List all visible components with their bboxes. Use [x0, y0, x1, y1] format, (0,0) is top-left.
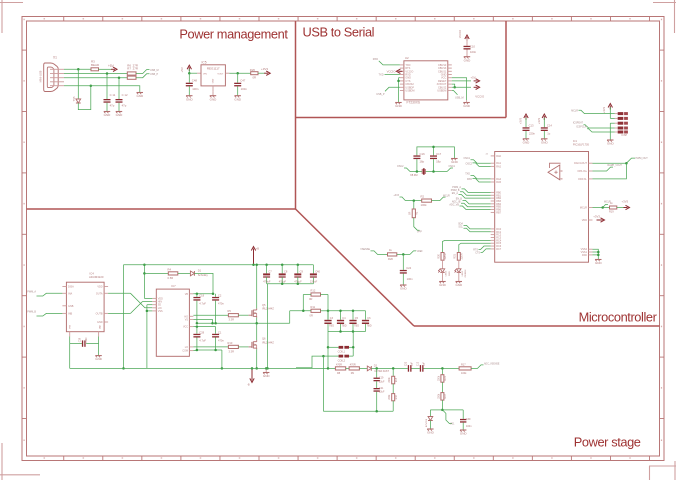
- wire Q6 source to bottom rail: [256, 349, 258, 368]
- svg-text:LO: LO: [185, 346, 188, 349]
- wire R4 to D1: [178, 272, 191, 274]
- wire RA2 crystal net: [465, 163, 490, 167]
- svg-text:C10: C10: [470, 44, 476, 48]
- svg-text:R11: R11: [311, 305, 316, 309]
- wire U2 GND right to ground: [452, 78, 467, 100]
- wire Q5 source to phase: [256, 318, 258, 324]
- svg-text:C1: C1: [218, 331, 222, 335]
- capacitor C16: [413, 152, 425, 172]
- wire R26 to +3V3: [258, 72, 265, 74]
- crystal Q1 8MHz: [410, 168, 447, 177]
- svg-text:220k: 220k: [438, 375, 440, 381]
- wire R9 to D2: [359, 367, 367, 369]
- section divider Microcontroller bottom horizontal: [414, 325, 660, 327]
- section title Power management: [179, 26, 288, 41]
- junction 3V3OUT: [453, 86, 456, 89]
- wire D- from X1: [64, 73, 127, 75]
- svg-text:GND: GND: [234, 97, 242, 101]
- IC1 left pin stubs and labels: [491, 155, 502, 251]
- svg-text:100n: 100n: [241, 87, 248, 91]
- svg-text:C 12: C 12: [122, 93, 128, 97]
- capacitor C40 220uF: [310, 265, 321, 284]
- wire feedback loop to OPA IN-: [593, 163, 627, 179]
- svg-text:R5: R5: [228, 309, 232, 313]
- resistor R19 10k pull-up: [603, 202, 617, 214]
- section divider USB to Serial right vertical: [505, 21, 507, 118]
- junction R15 top: [392, 367, 395, 370]
- resistor R10 3.3R: [228, 341, 239, 354]
- svg-text:220n: 220n: [529, 132, 535, 136]
- resistor R16 vertical: [389, 384, 398, 401]
- svg-text:C16: C16: [420, 152, 426, 156]
- junction lower node: [441, 409, 444, 412]
- svg-text:RXD: RXD: [373, 58, 378, 61]
- junction CTS-GND: [397, 80, 400, 83]
- wire TS5 to shield net: [78, 86, 91, 110]
- svg-text:100n: 100n: [470, 50, 477, 54]
- svg-text:TBD: TBD: [367, 325, 372, 328]
- svg-text:INA: INA: [68, 292, 73, 295]
- svg-text:+5V: +5V: [180, 67, 184, 72]
- svg-text:OPA IN-: OPA IN-: [578, 178, 587, 181]
- svg-text:C40: C40: [315, 270, 320, 274]
- voltage regulator IC5 REG1117: [201, 61, 225, 92]
- svg-text:GND: GND: [263, 374, 271, 378]
- ground GND right of U2: [463, 100, 471, 108]
- supply -B arrow: [247, 368, 254, 386]
- wire top rail to IC4 region vertical: [123, 265, 125, 369]
- svg-text:PAD: PAD: [582, 254, 587, 257]
- IC1 RA0 pin number: [486, 154, 489, 156]
- wire R6 to net label: [136, 69, 159, 74]
- svg-text:3.3R: 3.3R: [229, 349, 235, 353]
- wire PWM_A into IC4: [27, 290, 62, 296]
- capacitor C21 22uF: [374, 387, 385, 411]
- svg-text:COIL2: COIL2: [338, 358, 346, 362]
- svg-text:COM: COM: [182, 350, 188, 353]
- svg-text:GND: GND: [97, 321, 103, 324]
- ground GND below C13: [523, 139, 531, 145]
- svg-text:R17: R17: [461, 363, 466, 366]
- svg-text:RA5: RA5: [496, 181, 501, 184]
- junction VBUS: [77, 68, 80, 71]
- svg-text:+3V3: +3V3: [622, 199, 629, 203]
- svg-text:VB: VB: [185, 293, 189, 296]
- wire R2 to MCLR label: [432, 194, 451, 200]
- svg-text:3.3R: 3.3R: [229, 318, 235, 322]
- ground GND below IC4: [95, 344, 103, 362]
- svg-text:4.7uF: 4.7uF: [199, 338, 206, 342]
- wire capacitor bank bottom: [267, 283, 314, 285]
- svg-text:ICSPDAT: ICSPDAT: [573, 122, 584, 125]
- svg-text:470uF: 470uF: [263, 279, 271, 283]
- svg-text:470R: 470R: [336, 363, 342, 366]
- section divider USB to Serial bottom horizontal: [296, 117, 507, 119]
- svg-text:4.7uF: 4.7uF: [199, 301, 206, 305]
- svg-text:MCLR: MCLR: [443, 194, 450, 197]
- svg-text:ADUM3220: ADUM3220: [89, 275, 104, 279]
- svg-text:GND: GND: [427, 431, 435, 435]
- resistor R20 1k: [388, 248, 397, 261]
- ground GND below C39: [460, 430, 468, 436]
- wire Q5 drain to +B rail: [256, 265, 258, 309]
- svg-text:RED: RED: [449, 271, 451, 276]
- wire USBDM net label: [452, 91, 464, 100]
- wire IC4 OUTB crossover to HIN: [108, 302, 152, 314]
- wire VBUS from X1: [64, 68, 91, 70]
- wire RA1 crystal net: [463, 157, 490, 163]
- svg-text:C28: C28: [199, 331, 204, 335]
- svg-text:0R: 0R: [409, 212, 412, 215]
- svg-text:RXD: RXD: [467, 178, 472, 181]
- wire R7 to net label: [136, 73, 159, 78]
- wire GND CTS to ground: [399, 78, 400, 103]
- wire sense rail right: [328, 367, 335, 369]
- wire R12 R11 right vertical to filter: [321, 295, 329, 320]
- svg-text:220uF: 220uF: [310, 279, 318, 283]
- ground GND below C12: [116, 112, 124, 118]
- capacitor C47: [234, 73, 247, 96]
- junction SD-VSS: [146, 310, 149, 313]
- supply +3V3 above C14: [537, 114, 547, 127]
- ground GND below C47: [234, 96, 242, 102]
- wire VSS pins to ground: [593, 249, 599, 259]
- wire lower node to C39: [442, 409, 463, 411]
- svg-text:GND: GND: [455, 283, 463, 287]
- svg-text:VSS: VSS: [158, 310, 163, 313]
- svg-text:C13: C13: [529, 123, 534, 127]
- ground GND below C10: [464, 57, 472, 63]
- wire PWM_B into IC4: [27, 311, 62, 317]
- svg-text:VREF: VREF: [417, 251, 424, 253]
- capacitor C8 470uF: [279, 265, 288, 284]
- wire TXD net label: [373, 58, 400, 65]
- svg-text:VOUT: VOUT: [217, 73, 224, 75]
- svg-text:PWM_OUT: PWM_OUT: [636, 157, 649, 160]
- svg-text:+5V: +5V: [108, 64, 115, 68]
- section divider Power management bottom horizontal: [27, 208, 296, 210]
- supply +3V3 arrow: [261, 67, 270, 76]
- svg-text:RC7: RC7: [496, 248, 502, 251]
- junction D+: [118, 76, 121, 79]
- junction bottom rail: [221, 367, 268, 370]
- capacitor C23 1uF series: [418, 361, 426, 372]
- junction IC5 input: [188, 72, 191, 75]
- ground GND below C48: [186, 96, 194, 102]
- capacitor C24 100n: [400, 254, 413, 285]
- capacitor C12: [116, 78, 128, 112]
- svg-text:TBD: TBD: [354, 325, 359, 328]
- wire filter bottom rail: [328, 331, 366, 333]
- svg-text:100k: 100k: [461, 372, 467, 375]
- svg-text:-B: -B: [247, 383, 250, 387]
- LED2: [455, 260, 468, 277]
- svg-text:100n: 100n: [466, 425, 472, 428]
- svg-text:VPP: VPP: [417, 231, 422, 234]
- capacitor C4 TBD: [337, 311, 347, 332]
- wire DAC/AOUT to feedback label: [593, 157, 649, 163]
- section title Microcontroller: [579, 310, 658, 325]
- wire R3 to +5V: [99, 68, 112, 70]
- svg-text:C2: C2: [218, 294, 222, 298]
- capacitor C10: [464, 44, 477, 56]
- junction left vertical: [122, 367, 125, 370]
- wire filter top rail: [328, 310, 366, 312]
- svg-text:GND: GND: [464, 58, 472, 62]
- IC1 PIC16LF1705 microcontroller: [495, 152, 589, 263]
- svg-text:R7 27R: R7 27R: [127, 66, 138, 70]
- ground GND below ISP: [607, 140, 615, 146]
- inductor COIL1: [328, 331, 353, 353]
- MOSFET Q6 IRLR7843: [249, 337, 275, 350]
- svg-text:C 11: C 11: [110, 93, 116, 97]
- svg-text:220R: 220R: [444, 253, 447, 259]
- svg-text:C7: C7: [268, 270, 272, 274]
- svg-text:C22: C22: [406, 361, 408, 366]
- svg-text:BEAD: BEAD: [91, 63, 100, 67]
- svg-text:GND: GND: [439, 283, 447, 287]
- wire D1 to VB bootstrap: [194, 273, 213, 293]
- LED3: [438, 260, 451, 276]
- svg-text:SCL: SCL: [458, 225, 463, 228]
- resistor R30 220R: [437, 253, 447, 261]
- wire VCC rail: [193, 326, 215, 328]
- resistor R7: [127, 66, 138, 79]
- junction phase: [196, 322, 258, 325]
- svg-text:R4: R4: [168, 267, 172, 271]
- ISP header ICSP: [615, 112, 628, 137]
- svg-text:+3V3: +3V3: [593, 214, 600, 218]
- supply +5V arrow: [108, 64, 117, 71]
- wire bank bottom to ground rail: [267, 284, 269, 369]
- svg-text:GND: GND: [595, 261, 603, 265]
- svg-text:PIC16LF1705: PIC16LF1705: [573, 143, 590, 147]
- supply VCCIO arrow at RTS pin: [387, 69, 403, 73]
- IC1 name label: [573, 139, 590, 147]
- svg-text:GND: GND: [116, 113, 124, 117]
- wire phase rail: [197, 311, 290, 324]
- junction sense tap: [327, 346, 330, 370]
- svg-text:Q6: Q6: [262, 337, 266, 341]
- junction bank ground: [266, 367, 269, 370]
- wire COIL2 tap down to RC filter: [322, 356, 324, 411]
- svg-text:0R: 0R: [253, 76, 257, 80]
- svg-text:220k: 220k: [389, 394, 391, 400]
- svg-text:R31: R31: [454, 254, 457, 259]
- wire R12 left vertical: [303, 295, 311, 311]
- ground GND below D3: [427, 421, 435, 435]
- wire VS to phase rail: [193, 319, 212, 323]
- svg-text:VS: VS: [185, 318, 189, 321]
- wire R11 feed from phase: [290, 310, 311, 312]
- svg-text:MCLR: MCLR: [571, 109, 578, 112]
- svg-text:C24: C24: [406, 266, 411, 270]
- ground GND below C24: [400, 285, 408, 291]
- svg-text:GND: GND: [451, 160, 459, 164]
- svg-text:OSC2: OSC2: [465, 163, 472, 166]
- wire ISP ICSPCLK: [576, 126, 615, 132]
- svg-text:0R: 0R: [310, 313, 313, 317]
- wire ISP GND row: [610, 123, 615, 140]
- junction RC bottom: [375, 410, 378, 413]
- wire RC5 to R31: [459, 243, 491, 252]
- svg-text:RAMP_VOUT: RAMP_VOUT: [608, 164, 623, 167]
- svg-text:GNB: GNB: [68, 305, 74, 308]
- svg-text:C18: C18: [199, 294, 204, 298]
- section title USB to Serial: [303, 25, 375, 40]
- resistor R2 100k: [421, 195, 432, 208]
- svg-text:18p: 18p: [420, 160, 425, 164]
- capacitor C39 100n: [460, 410, 472, 430]
- gate driver IC4 ADUM3220: [62, 271, 108, 336]
- wire Q6 drain to phase: [256, 323, 258, 340]
- svg-text:DISA: DISA: [68, 286, 74, 289]
- svg-text:GND: GND: [210, 97, 218, 101]
- supply VCCIO arrow above C10: [458, 30, 469, 46]
- svg-text:TS5: TS5: [72, 96, 76, 101]
- svg-text:USBDM: USBDM: [405, 90, 414, 93]
- svg-text:COIL1: COIL1: [338, 349, 346, 353]
- svg-text:USBDM: USBDM: [437, 90, 446, 93]
- wire R20 to C24: [397, 251, 423, 255]
- svg-text:RA0: RA0: [496, 155, 501, 158]
- svg-text:GND: GND: [136, 94, 144, 98]
- ground GND below LED2: [455, 272, 463, 287]
- wires RC0 RC1 to net labels: [458, 223, 491, 232]
- resistor R9 470R: [349, 363, 359, 375]
- svg-text:OUTA: OUTA: [96, 292, 103, 295]
- svg-text:C9: C9: [300, 270, 304, 274]
- svg-text:R30: R30: [437, 254, 440, 259]
- junction VSS: [597, 251, 600, 256]
- svg-text:USB to Serial: USB to Serial: [303, 25, 375, 40]
- junction COM: [196, 349, 217, 352]
- svg-text:RB7: RB7: [496, 211, 501, 214]
- wire R5 to Q5 gate: [238, 314, 248, 316]
- svg-text:IC5: IC5: [202, 61, 207, 65]
- junction crystal top: [432, 146, 435, 149]
- capacitor C19 22uF: [374, 368, 385, 388]
- svg-text:Power stage: Power stage: [574, 435, 641, 450]
- wire RC4 to R30: [443, 240, 491, 252]
- svg-text:GND: GND: [460, 432, 468, 436]
- resistor R17 100k: [459, 363, 471, 375]
- junction D2 out: [375, 367, 378, 370]
- svg-text:OSC2: OSC2: [397, 165, 404, 168]
- wire RESET to 3V3OUT: [452, 84, 455, 87]
- wire RC6 net label: [473, 246, 490, 251]
- svg-text:R14: R14: [445, 376, 447, 381]
- supply +3V3 at VDD pin: [593, 214, 604, 222]
- wire lower node to D3: [430, 410, 442, 417]
- svg-text:1uF: 1uF: [424, 361, 426, 366]
- wire USBDP net label: [376, 87, 400, 96]
- svg-text:100n: 100n: [85, 337, 88, 343]
- junction shield: [90, 84, 93, 87]
- supply +5V arrow at IC5 input: [180, 65, 191, 73]
- svg-text:220k: 220k: [438, 393, 440, 399]
- junction R14 top: [441, 367, 444, 370]
- capacitor C18 4.7uF: [193, 294, 206, 324]
- svg-text:TBD: TBD: [329, 325, 334, 328]
- svg-text:VCCIO: VCCIO: [475, 95, 485, 99]
- svg-text:Q5: Q5: [262, 303, 266, 307]
- svg-text:LAD: LAD: [99, 324, 102, 328]
- junction bank bottom: [281, 283, 299, 286]
- pale outer sheet corner top-left: [0, 0, 23, 33]
- svg-text:U2: U2: [405, 56, 409, 60]
- wire HO to gate resistor: [193, 314, 228, 316]
- wire R10 to Q6 gate: [238, 346, 248, 348]
- svg-text:PWM_A: PWM_A: [27, 290, 36, 293]
- ground GND right of crystal: [451, 159, 459, 165]
- resistor R12 0R: [309, 289, 321, 302]
- wire IC4 OUTA crossover to LIN: [108, 293, 152, 308]
- wire RC filter bottom rail: [323, 401, 393, 411]
- junction C24: [402, 253, 405, 256]
- IC U2 FT230XS: [400, 56, 452, 105]
- capacitor C1 470n: [212, 327, 224, 350]
- wire lower node net label: [442, 410, 455, 426]
- svg-text:+3V3: +3V3: [261, 67, 268, 71]
- wire VB rail: [193, 293, 213, 295]
- svg-text:+3V3: +3V3: [602, 106, 606, 113]
- svg-text:USB_P: USB_P: [150, 73, 159, 76]
- inductor COIL2: [323, 347, 353, 362]
- resistor R14 vertical: [438, 368, 447, 382]
- wire C22 to C13b: [412, 367, 420, 369]
- section divider diagonal Microcontroller / Power stage: [296, 209, 415, 326]
- wire crystal to OSC2 label: [447, 165, 456, 172]
- svg-text:BZV3V9: BZV3V9: [426, 418, 428, 427]
- svg-text:220k: 220k: [389, 377, 391, 383]
- svg-text:CTS: CTS: [475, 251, 480, 254]
- svg-text:C14: C14: [547, 123, 552, 127]
- ground GND below IC5: [210, 92, 218, 102]
- junction R11 left: [302, 310, 305, 313]
- capacitor C11: [104, 74, 116, 112]
- wire RA4 net: [465, 173, 490, 179]
- capacitor C17: [430, 152, 442, 172]
- svg-text:22uF: 22uF: [379, 391, 385, 394]
- svg-text:VDD: VDD: [97, 286, 102, 289]
- wire bottom ground rail: [70, 367, 328, 369]
- svg-text:LED2: LED2: [462, 270, 464, 276]
- junction D-: [106, 72, 109, 75]
- wire R17 to ADC net label: [471, 362, 500, 368]
- svg-text:RA2: RA2: [496, 165, 501, 168]
- wire RA5 net: [467, 178, 491, 182]
- svg-text:USB_M: USB_M: [150, 69, 159, 72]
- wire C23 to R17: [424, 367, 460, 369]
- svg-text:+5V: +5V: [471, 76, 476, 80]
- svg-text:USB_M: USB_M: [455, 96, 464, 99]
- svg-text:R16: R16: [396, 394, 398, 399]
- resistor R31 220R: [454, 253, 464, 261]
- svg-text:ADC_VB: ADC_VB: [449, 203, 459, 206]
- capacitor C7 470uF: [263, 265, 272, 284]
- ground GND below VSS: [595, 260, 603, 266]
- capacitor C3 TBD: [324, 311, 334, 332]
- svg-text:R15: R15: [396, 377, 398, 382]
- svg-text:MCLR: MCLR: [580, 207, 587, 210]
- svg-text:ICSPCLK: ICSPCLK: [576, 126, 587, 129]
- svg-text:GND: GND: [607, 142, 615, 146]
- resistor R8 470R: [335, 363, 345, 375]
- svg-text:GND: GND: [186, 97, 194, 101]
- junction VCC: [196, 325, 199, 328]
- wire R1 to VPP label: [414, 218, 422, 234]
